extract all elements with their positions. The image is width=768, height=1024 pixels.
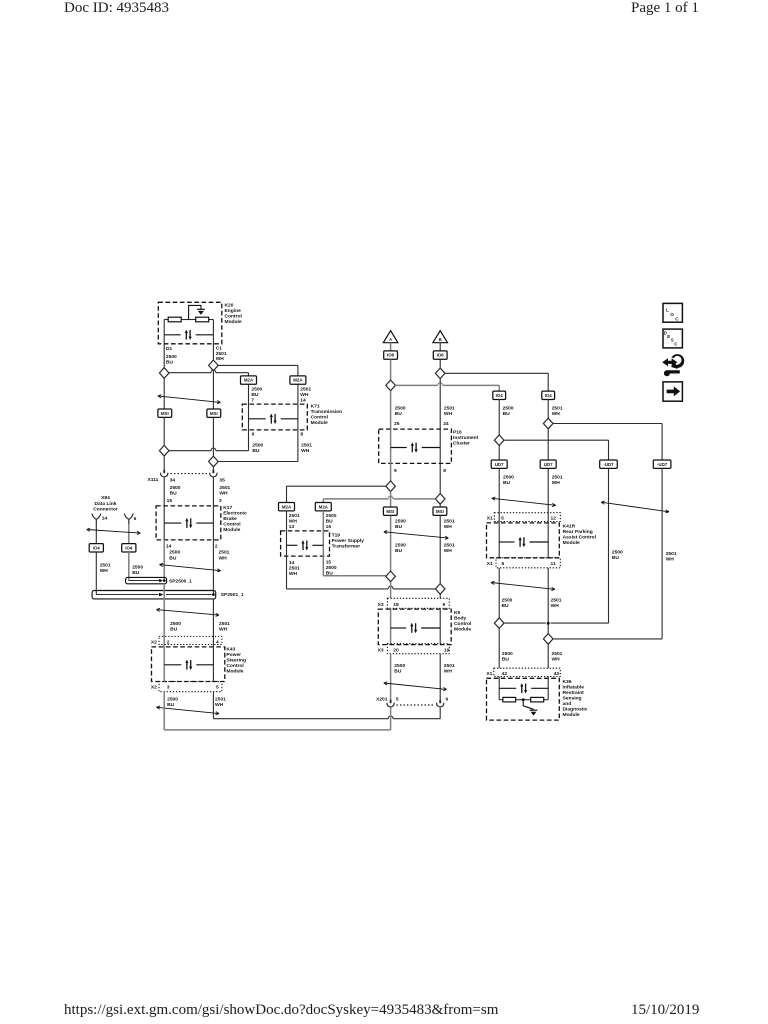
svg-text:14: 14 bbox=[102, 516, 108, 522]
wire K41R internal 2501 bbox=[547, 513, 549, 558]
wire IO6 A down bbox=[390, 359, 392, 380]
svg-text:C1: C1 bbox=[216, 345, 223, 351]
wire K41R pin11 down bbox=[547, 568, 549, 634]
svg-text:M2A: M2A bbox=[319, 504, 329, 509]
twisted pair marker below K43 bbox=[157, 706, 220, 715]
op-amp K9 CAN transceiver arrows bbox=[391, 627, 407, 629]
svg-text:O: O bbox=[670, 312, 674, 317]
node 2500 bus diamond (X111) bbox=[159, 445, 169, 456]
svg-text:K20EngineControlModule: K20EngineControlModule bbox=[225, 303, 243, 326]
svg-text:D1: D1 bbox=[166, 346, 173, 352]
module box K41R Rear Parking Assist Control Module bbox=[487, 523, 560, 558]
wire A MSI down bbox=[390, 516, 392, 571]
wire B to K9 bbox=[439, 594, 441, 598]
wire 2501 WH trunk upper bbox=[212, 370, 214, 409]
twisted pair marker below K9 bbox=[384, 682, 447, 691]
wire K71 pin 8 return to 2501 bus bbox=[297, 430, 299, 462]
node diamond 2500 (UD7 tap) bbox=[494, 435, 504, 446]
header doc id bbox=[64, 0, 169, 17]
connector MSI (2500) bbox=[158, 409, 172, 417]
wire ECM right rail C1 bbox=[212, 320, 214, 361]
node diamond B lower bbox=[435, 584, 445, 595]
svg-text:C: C bbox=[674, 341, 677, 346]
wire P16 pin8 down bbox=[439, 463, 441, 493]
svg-text:2501WH: 2501WH bbox=[666, 551, 677, 563]
svg-text:T19Power SupplyTransformer: T19Power SupplyTransformer bbox=[332, 532, 365, 549]
svg-text:P16InstrumentCluster: P16InstrumentCluster bbox=[453, 429, 479, 446]
svg-text:19: 19 bbox=[444, 647, 450, 653]
svg-text:X84Data LinkConnector: X84Data LinkConnector bbox=[93, 495, 118, 512]
wire K36 internal 2500 bbox=[498, 677, 500, 700]
wire 2501 to IO4 right bbox=[445, 372, 548, 374]
svg-text:6: 6 bbox=[502, 561, 505, 567]
connector -UD7 (2500) bbox=[600, 460, 618, 468]
wire diamonds to UD7 boxes bbox=[498, 446, 500, 461]
resistor ECM left termination bbox=[168, 317, 181, 322]
module box K17 Electronic Brake Control Module bbox=[156, 506, 221, 540]
svg-text:9: 9 bbox=[443, 602, 446, 608]
svg-text:X111: X111 bbox=[148, 477, 159, 483]
node diamond 2501 (K36 tap) bbox=[543, 634, 553, 645]
svg-text:2501WH: 2501WH bbox=[219, 621, 230, 633]
wire K17 internal 2500 bbox=[163, 506, 165, 540]
svg-text:5: 5 bbox=[501, 516, 504, 522]
wire T19 pin15 to 2500 diamond bbox=[322, 556, 324, 576]
wire -UD7 2500 return bbox=[504, 622, 546, 624]
hop 2500 over wire B bbox=[438, 383, 443, 386]
wire stub to X111 left bbox=[163, 456, 165, 470]
splice SP2501_1 bbox=[92, 591, 216, 599]
svg-text:2500BU: 2500BU bbox=[395, 543, 406, 555]
svg-text:2501WH: 2501WH bbox=[444, 405, 455, 417]
twisted pair marker above K43 bbox=[157, 608, 220, 616]
svg-text:2500BU: 2500BU bbox=[502, 597, 513, 609]
wire K41R internal 2500 bbox=[498, 513, 500, 558]
svg-text:-UD7: -UD7 bbox=[603, 462, 614, 467]
svg-text:X2: X2 bbox=[151, 685, 157, 691]
connector X2 top (K43) bbox=[159, 636, 222, 644]
svg-text:SP2501_1: SP2501_1 bbox=[221, 592, 244, 598]
wire ECM ground tap bbox=[189, 305, 201, 319]
wire K36 termination rail bbox=[499, 699, 503, 701]
wire 2501 to -UD7 far right bbox=[553, 423, 662, 425]
wire K43 pin3 bottom run 2500 bbox=[163, 692, 165, 730]
twisted pair marker above K41R bbox=[492, 497, 556, 506]
svg-text:15: 15 bbox=[326, 559, 332, 565]
svg-text:S: S bbox=[671, 338, 674, 343]
svg-text:MSI: MSI bbox=[210, 411, 218, 416]
wire stub to X111 right bbox=[212, 467, 214, 470]
wire K17 internal 2501 bbox=[212, 506, 214, 540]
svg-text:MSI: MSI bbox=[386, 509, 394, 514]
wire K17 pin2 to splice bbox=[212, 540, 214, 595]
svg-text:2500BU: 2500BU bbox=[503, 406, 514, 418]
wire IO4 2500 down bbox=[498, 400, 500, 436]
wire -UD7 2501 return bbox=[553, 638, 662, 640]
svg-text:2: 2 bbox=[215, 544, 218, 550]
module box K20 Engine Control Module bbox=[158, 302, 222, 344]
node D1 branch diamond bbox=[159, 368, 169, 379]
wire IO4 2501 down bbox=[547, 400, 549, 419]
op-amp K43 CAN transceiver arrows bbox=[164, 664, 181, 666]
svg-text:IO4: IO4 bbox=[93, 545, 101, 550]
wire T19 internal right bbox=[322, 511, 324, 556]
svg-text:2501WH: 2501WH bbox=[289, 566, 300, 577]
svg-text:L: L bbox=[666, 308, 669, 313]
wire X84 2501 to SP2501_1 bbox=[95, 552, 97, 595]
hop T19 tap over wire A bbox=[388, 496, 393, 499]
connector X111 terminal 35 bbox=[210, 470, 217, 477]
connector UD7 (2501) bbox=[540, 460, 556, 468]
connector X111 terminal 34 bbox=[160, 470, 167, 477]
node diamond A lower bbox=[386, 571, 396, 582]
connector IO6 (A) bbox=[384, 351, 398, 359]
svg-text:X3: X3 bbox=[378, 647, 384, 653]
twisted pair marker middle bbox=[384, 531, 449, 540]
svg-text:2500BU: 2500BU bbox=[502, 651, 513, 663]
svg-text:42: 42 bbox=[502, 671, 508, 677]
twisted pair marker below K41R bbox=[491, 581, 555, 590]
wire K9 internal 2501 bbox=[439, 608, 441, 643]
wire IO6 B down bbox=[439, 359, 441, 368]
hop bottom run over 2500 bbox=[388, 716, 393, 719]
svg-text:35: 35 bbox=[219, 477, 225, 483]
wire K9 internal 2500 bbox=[390, 608, 392, 643]
wire -UD7 2501 down bbox=[661, 468, 663, 639]
connector X201 dotted line bbox=[397, 704, 435, 706]
connector X84 terminal 14 bbox=[92, 514, 101, 524]
svg-text:2500BU: 2500BU bbox=[503, 475, 514, 487]
wire ECM internal top rail bbox=[164, 319, 168, 321]
svg-text:3: 3 bbox=[167, 685, 170, 691]
wire B MSI down bbox=[439, 516, 441, 584]
icon next-page arrow box bbox=[663, 382, 682, 401]
connector X2 bottom (K43) bbox=[159, 682, 222, 692]
wire UD7 2501 to X1 bbox=[547, 468, 549, 512]
off-page triangle B bbox=[433, 331, 448, 343]
svg-text:2501WH: 2501WH bbox=[215, 697, 226, 709]
svg-text:2: 2 bbox=[167, 639, 170, 645]
connector X84 terminal 6 bbox=[124, 514, 133, 524]
svg-text:2501WH: 2501WH bbox=[444, 663, 455, 675]
svg-text:2501WH13: 2501WH13 bbox=[289, 513, 300, 530]
svg-text:2500BU: 2500BU bbox=[395, 405, 406, 417]
node C1 branch diamond bbox=[209, 360, 219, 371]
svg-text:2501WH: 2501WH bbox=[444, 518, 455, 530]
wire 2501 WH to M2A (K71 pin 14 branch) bbox=[218, 364, 298, 366]
svg-text:2501WH: 2501WH bbox=[444, 543, 455, 555]
op-amp K41R CAN transceiver arrows bbox=[499, 541, 514, 543]
connector M2A (left) bbox=[241, 376, 257, 384]
junction blob on 2500 return bbox=[547, 622, 550, 625]
wire 2500 BU trunk to diamond bbox=[163, 417, 165, 445]
twisted pair marker -UD7 pair bbox=[601, 501, 669, 513]
op-amp K36 CAN transceiver arrows bbox=[499, 687, 516, 689]
hop K71 return over 2501 bbox=[211, 448, 216, 451]
icon DESC box bbox=[663, 329, 682, 348]
op-amp T19 CAN transceiver arrows bbox=[287, 544, 298, 546]
wire 2500 BU to M2A (K71 pin 7 branch) bbox=[169, 372, 211, 374]
wire X84-14 down bbox=[95, 524, 97, 544]
wire A to P16 bbox=[390, 391, 392, 429]
svg-text:5: 5 bbox=[396, 697, 399, 703]
module box T19 Power Supply Transformer bbox=[281, 531, 330, 556]
icon LOC box bbox=[663, 303, 682, 322]
node diamond A (2500) bbox=[386, 380, 396, 391]
svg-text:B: B bbox=[439, 337, 442, 342]
svg-text:K17ElectronicBrakeControlModul: K17ElectronicBrakeControlModule bbox=[223, 505, 247, 533]
node diamond B (2501) bbox=[435, 368, 445, 379]
wire K71 pin 6 return to 2500 bus bbox=[248, 430, 250, 451]
svg-text:2500BU: 2500BU bbox=[167, 697, 178, 709]
twisted pair marker X84 bbox=[87, 528, 141, 534]
footer date bbox=[631, 1002, 699, 1019]
twisted pair marker mid left bbox=[160, 563, 221, 572]
svg-text:IO6: IO6 bbox=[437, 353, 445, 358]
svg-text:IO4: IO4 bbox=[125, 545, 133, 550]
svg-text:2500BU: 2500BU bbox=[169, 550, 180, 562]
wire -UD7 2500 down bbox=[608, 468, 610, 623]
svg-text:2500BU: 2500BU bbox=[170, 621, 181, 633]
svg-text:2500BU: 2500BU bbox=[612, 549, 623, 561]
wire 2501 WH trunk to diamond bbox=[212, 417, 214, 456]
module box P16 Instrument Cluster bbox=[379, 429, 452, 463]
connector M2A (right) bbox=[290, 376, 306, 384]
wire T19 internal left bbox=[286, 511, 288, 556]
resistor K36 right termination bbox=[531, 697, 544, 702]
svg-text:15: 15 bbox=[167, 498, 173, 504]
svg-text:M2A: M2A bbox=[244, 378, 254, 383]
wire K36 2500 lead bbox=[498, 628, 500, 668]
svg-text:UD7: UD7 bbox=[495, 462, 504, 467]
connector X3 top (K9) bbox=[387, 598, 449, 608]
svg-text:24: 24 bbox=[443, 421, 449, 427]
connector IO4 (2501 right) bbox=[542, 391, 555, 399]
connector UD7 (2500) bbox=[491, 460, 507, 468]
wire K36 ground lead bbox=[523, 700, 533, 710]
svg-text:UD7: UD7 bbox=[544, 462, 553, 467]
svg-text:X1: X1 bbox=[487, 561, 493, 567]
svg-text:11: 11 bbox=[551, 561, 556, 567]
svg-text:X201: X201 bbox=[376, 697, 388, 703]
svg-text:3: 3 bbox=[219, 498, 222, 504]
connector X3 bottom (K9) bbox=[387, 644, 449, 654]
svg-text:A: A bbox=[389, 337, 392, 342]
node 2501 bus diamond (X111) bbox=[209, 456, 219, 467]
svg-text:IO4: IO4 bbox=[496, 393, 504, 398]
wire K36 2501 lead bbox=[547, 644, 549, 668]
hop crossing 2500 over 2501 bbox=[211, 370, 216, 373]
module box K9 Body Control Module bbox=[378, 609, 451, 645]
wire P16 internal 2500 bbox=[390, 429, 392, 463]
svg-text:2500BU: 2500BU bbox=[252, 442, 263, 454]
svg-text:6: 6 bbox=[446, 697, 449, 703]
svg-text:2500BU: 2500BU bbox=[326, 565, 337, 576]
wire P16 internal 2501 bbox=[439, 429, 441, 463]
resistor ECM right termination bbox=[196, 317, 209, 322]
svg-text:4: 4 bbox=[216, 639, 219, 645]
wire splice to K43 2500 bbox=[163, 584, 165, 647]
svg-text:IO6: IO6 bbox=[387, 353, 395, 358]
svg-text:2500BU: 2500BU bbox=[395, 518, 406, 530]
svg-text:X1: X1 bbox=[487, 516, 493, 522]
wire K43 internal 2500 bbox=[163, 647, 165, 682]
svg-text:2500BU: 2500BU bbox=[132, 564, 143, 576]
hop T19 pin14 over wire A bbox=[388, 586, 393, 589]
svg-text:X1: X1 bbox=[486, 671, 492, 677]
ground ECM bbox=[197, 309, 205, 315]
wire K71 pin 7 lead bbox=[248, 384, 250, 430]
wire K41R pin6 down bbox=[498, 568, 500, 618]
connector IO4 (X84 right) bbox=[122, 544, 136, 552]
svg-text:2501WH: 2501WH bbox=[552, 406, 563, 418]
wire T19 pin14 to 2501 diamond bbox=[286, 556, 288, 589]
wire K43 pin5 bottom run 2501 bbox=[212, 692, 214, 719]
wire 2500 to -UD7 near right bbox=[504, 439, 609, 441]
svg-text:6: 6 bbox=[252, 432, 255, 438]
module box K36 Inflatable Restraint Sensing and Diagnostic Module bbox=[487, 678, 560, 720]
off-page triangle A bbox=[383, 331, 398, 343]
resistor K36 left termination bbox=[503, 697, 516, 702]
connector MSI (middle 2500) bbox=[383, 507, 397, 515]
svg-text:M2A: M2A bbox=[293, 378, 303, 383]
wire 2500 to IO4 left bbox=[395, 384, 437, 386]
wire K9 pin19 to X201 bbox=[439, 654, 441, 700]
svg-text:6: 6 bbox=[134, 516, 137, 522]
svg-text:43: 43 bbox=[554, 671, 560, 677]
svg-text:34: 34 bbox=[170, 477, 176, 483]
wire 2501 tap to M2A T19 right bbox=[393, 498, 435, 500]
wire P16 pin9 down bbox=[390, 463, 392, 481]
svg-text:IO4: IO4 bbox=[545, 393, 553, 398]
wire K43 internal 2501 bbox=[212, 647, 214, 682]
wire K9 pin20 to X201 bbox=[390, 654, 392, 700]
svg-text:2501WH: 2501WH bbox=[100, 562, 111, 574]
svg-text:5: 5 bbox=[216, 685, 219, 691]
svg-text:X3: X3 bbox=[378, 602, 384, 608]
icon data exchange arrows bbox=[662, 354, 684, 376]
svg-text:MSI: MSI bbox=[161, 411, 169, 416]
connector MSI (2501) bbox=[207, 409, 221, 417]
svg-text:2501WH14: 2501WH14 bbox=[300, 386, 311, 403]
wire X201-5 down to bottom run bbox=[390, 707, 392, 730]
connector IO4 (2500 right) bbox=[493, 391, 506, 399]
svg-text:-UD7: -UD7 bbox=[657, 462, 668, 467]
svg-text:MSI: MSI bbox=[436, 509, 444, 514]
splice SP2500_1 bbox=[126, 577, 167, 583]
connector X201 terminal 6 bbox=[436, 700, 443, 707]
svg-text:2501WH: 2501WH bbox=[301, 442, 312, 454]
svg-text:12: 12 bbox=[551, 516, 557, 522]
svg-text:2501WH: 2501WH bbox=[551, 597, 562, 609]
op-amp P16 CAN transceiver arrows bbox=[391, 447, 407, 449]
connector -UD7 (2501) bbox=[653, 460, 671, 468]
wire X84 2500 to SP2500_1 bbox=[128, 552, 130, 581]
op-amp K71 CAN transceiver arrows bbox=[249, 418, 266, 420]
connector IO4 (X84 left) bbox=[89, 544, 103, 552]
wire triangle A to IO6 bbox=[390, 343, 392, 351]
footer url bbox=[64, 1002, 498, 1019]
connector M2A (T19 left) bbox=[279, 503, 295, 511]
module box K71 Transmission Control Module bbox=[242, 404, 307, 430]
connector X1 top (K41R) bbox=[494, 513, 560, 522]
svg-text:K71TransmissionControlModule: K71TransmissionControlModule bbox=[311, 404, 343, 427]
wire B to P16 bbox=[439, 379, 441, 430]
ground K36 bbox=[530, 710, 538, 715]
wire X111-34 to K17 bbox=[163, 477, 165, 506]
node diamond 2501 (UD7 tap) bbox=[543, 418, 553, 429]
svg-text:K41RRear ParkingAssist Control: K41RRear ParkingAssist ControlModule bbox=[563, 524, 597, 547]
svg-text:2500BU7: 2500BU7 bbox=[251, 386, 262, 403]
svg-text:8: 8 bbox=[443, 468, 446, 474]
wire K71 pin 14 lead bbox=[297, 384, 299, 430]
svg-text:20: 20 bbox=[393, 647, 399, 653]
wire splice to K43 2501 bbox=[212, 599, 214, 647]
svg-text:25: 25 bbox=[394, 421, 400, 427]
op-amp K20 CAN transceiver arrows bbox=[164, 334, 181, 336]
svg-text:9: 9 bbox=[394, 468, 397, 474]
wire X111-35 to K17 bbox=[212, 477, 214, 506]
connector X111 dotted line bbox=[171, 473, 208, 475]
svg-text:2501WH: 2501WH bbox=[216, 351, 227, 362]
svg-text:14: 14 bbox=[289, 560, 295, 566]
svg-text:2500BU: 2500BU bbox=[394, 663, 405, 675]
wire 2500 tap to M2A T19 left bbox=[287, 485, 386, 487]
svg-text:2501WH: 2501WH bbox=[219, 550, 230, 562]
svg-text:2501WH: 2501WH bbox=[219, 485, 230, 497]
svg-text:X2: X2 bbox=[151, 639, 157, 645]
wire B diamond to MSI bbox=[439, 504, 441, 507]
svg-text:2500BU16: 2500BU16 bbox=[326, 513, 337, 530]
connector M2A (T19 right) bbox=[315, 503, 331, 511]
svg-text:2500BU: 2500BU bbox=[170, 485, 181, 497]
svg-text:14: 14 bbox=[166, 544, 172, 550]
svg-text:2501WH: 2501WH bbox=[552, 651, 563, 663]
wire K17 pin14 to splice bbox=[163, 540, 165, 581]
header page number bbox=[631, 0, 699, 17]
junction K36 ground node bbox=[522, 698, 525, 701]
svg-text:K43PowerSteeringControlModule: K43PowerSteeringControlModule bbox=[226, 647, 246, 675]
svg-text:K9BodyControlModule: K9BodyControlModule bbox=[454, 610, 472, 633]
wire triangle B to IO6 bbox=[439, 343, 441, 351]
wire K36 internal 2501 bbox=[547, 677, 549, 700]
wire A diamond to MSI bbox=[390, 492, 392, 507]
svg-text:SP2500_1: SP2500_1 bbox=[169, 579, 192, 585]
wire ECM left rail D1 bbox=[163, 320, 165, 369]
connector MSI (middle 2501) bbox=[433, 507, 447, 515]
svg-text:8: 8 bbox=[300, 432, 303, 438]
connector X1 (K36) bbox=[494, 668, 561, 676]
twisted pair marker upper left bbox=[158, 395, 221, 404]
node diamond 2501 (T19 tap) bbox=[435, 494, 445, 505]
wire A to K9 bbox=[390, 582, 392, 599]
op-amp K17 CAN transceiver arrows bbox=[164, 522, 181, 524]
module box K43 Power Steering Control Module bbox=[152, 647, 225, 682]
svg-text:2500BU: 2500BU bbox=[166, 354, 177, 366]
svg-text:2501WH: 2501WH bbox=[552, 475, 563, 487]
connector X1 bottom (K41R) bbox=[496, 558, 560, 568]
node diamond 2500 (T19 tap) bbox=[386, 481, 396, 492]
connector IO6 (B) bbox=[433, 351, 447, 359]
svg-text:18: 18 bbox=[393, 602, 399, 608]
wire X84-6 down bbox=[128, 524, 130, 544]
node diamond 2500 (K36 tap) bbox=[494, 618, 504, 629]
wire 2500 BU trunk upper bbox=[163, 378, 165, 410]
connector X201 terminal 5 bbox=[387, 700, 394, 707]
wire UD7 2500 to X1 bbox=[498, 468, 500, 512]
svg-text:K36InflatableRestraintSensinga: K36InflatableRestraintSensingandDiagnost… bbox=[563, 679, 588, 718]
svg-text:M2A: M2A bbox=[282, 504, 292, 509]
